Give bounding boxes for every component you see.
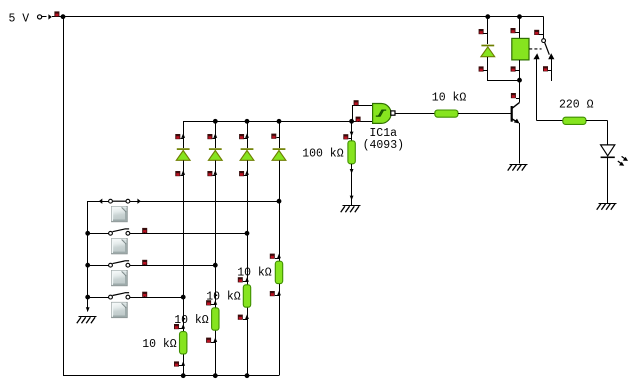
value label R2 10 k&#937; [174,314,209,327]
junction dot [181,295,186,300]
switch S2 (open) [109,229,130,235]
wire gate input A jog [352,106,354,122]
wire [183,354,185,376]
wire [42,16,46,18]
wire 5V rail left [63,17,65,376]
pin marker [175,171,183,176]
value label R4 10 k&#937; [237,267,272,280]
junction dot bottom rail [245,373,250,378]
pin marker [54,11,59,16]
pin marker [238,277,247,282]
wire [607,158,609,203]
wire [279,121,281,148]
wire [487,57,489,81]
ground [508,165,528,171]
wire diode bus [183,121,373,123]
wire [488,80,520,82]
pin marker [356,117,361,122]
LED arrows [618,156,628,165]
resistor R2 [212,308,219,330]
pin marker [206,300,215,305]
value label R1 10 k&#937; [142,338,177,351]
pin marker [142,260,147,265]
wire [351,121,353,141]
junction dot [213,263,218,268]
pin arrow [99,199,102,204]
pin marker [354,100,359,106]
wire 5V rail bottom [63,375,279,377]
junction dot [485,14,490,19]
wire [351,164,353,205]
wire [215,160,217,307]
pin arrow [213,300,217,305]
relay actuator dashed link [529,48,541,50]
pin marker [175,134,183,139]
diode D5 flyback [481,46,495,57]
value label R6 10 k&#937; [432,92,467,105]
pin marker [207,171,215,176]
wire [88,265,109,267]
wire [279,160,281,261]
pin arrow [137,199,140,204]
LED D6 [601,145,615,157]
pin arrow [350,169,354,174]
pin arrow [350,132,354,137]
wire collector [519,80,521,102]
op-amp U1 IC1a gate body [373,104,391,124]
wire [520,16,544,18]
ground [77,317,97,324]
pin marker [534,30,543,35]
pin marker [239,134,247,139]
svg-text:100 kΩ: 100 kΩ [302,148,344,161]
value label R5 100 k&#937; [302,148,344,161]
junction dot top bus [213,119,218,124]
wire [586,120,608,122]
pin arrow [48,14,51,19]
value label R3 10 k&#937; [206,290,241,303]
wire [487,17,489,44]
pin marker [270,254,279,259]
pin marker [543,66,552,71]
pin arrow [277,254,281,259]
switch S3 (open) [109,261,130,267]
gate output bubble [391,111,395,115]
wire [88,233,109,235]
junction dot [349,119,354,124]
wire [536,120,562,122]
pin arrow [213,170,217,175]
wire [215,121,217,148]
wire [247,160,249,284]
wire [543,17,545,39]
ref label IC1a [369,127,397,140]
pin marker [174,324,183,329]
wire 5V rail top [63,16,544,18]
junction dot [85,263,90,268]
transistor Q1 [512,103,520,124]
svg-text:10 kΩ: 10 kΩ [432,92,467,105]
junction dot [245,231,250,236]
ground [341,206,361,213]
svg-text:10 kΩ: 10 kΩ [206,290,241,303]
junction dot top bus [245,119,250,124]
wire contact NC stub [551,59,553,81]
pin arrow [350,196,354,201]
contact NO arrow [533,53,539,59]
switch S4 (open) [109,293,130,299]
pushbutton cap S2 [112,239,128,254]
svg-text:(4093): (4093) [363,139,404,152]
pin arrow [245,170,249,175]
wire [519,17,521,39]
pin arrow [213,133,217,138]
wire [458,113,511,115]
wire [607,121,609,145]
pin marker [270,291,279,296]
pin arrow [181,324,185,329]
wire gate input A [352,105,373,107]
resistor R7 [563,117,586,124]
resistor R4 [275,261,282,283]
pin marker [142,228,147,233]
wire [130,233,247,235]
value label R7 220 &#937; [559,99,594,112]
wire [130,297,183,299]
junction dot [61,14,66,19]
pin marker [142,292,147,297]
pin arrow [213,337,217,342]
switch S1 (closed) [109,199,130,203]
pin marker [239,171,247,176]
pin marker [206,338,215,343]
svg-text:10 kΩ: 10 kΩ [237,267,272,280]
wire [130,201,279,203]
pin arrow [245,314,249,319]
diode D3 [240,149,254,160]
pin marker [511,66,520,71]
pin arrow [181,133,185,138]
wire switch bus [87,201,89,312]
pin arrow [181,170,185,175]
pin marker [238,315,247,320]
junction dot [85,295,90,300]
junction dot [85,231,90,236]
relay K1 coil [512,38,529,60]
resistor R5 [348,141,355,164]
pin arrow [277,291,281,296]
junction dot [517,14,522,19]
junction dot bottom rail [181,373,186,378]
wire [247,121,249,148]
pin arrow [245,133,249,138]
wire [52,16,63,18]
svg-text:5 V: 5 V [9,13,30,26]
wire [215,330,217,376]
relay contact lever [545,42,550,54]
wire [130,265,215,267]
wire contact NO [536,59,538,121]
relay contact common [542,39,546,43]
ref label (4093) [363,139,404,152]
pin marker [479,29,488,34]
pin arrow [86,307,90,312]
pin marker collector [511,93,520,99]
pin arrow [245,277,249,282]
svg-text:220 Ω: 220 Ω [559,99,594,112]
diode D1 [176,149,190,160]
wire [88,201,109,203]
pin marker [343,134,351,139]
net label 5V [9,13,30,26]
svg-text:10 kΩ: 10 kΩ [142,338,177,351]
wire [519,60,521,80]
wire [88,297,109,299]
svg-text:10 kΩ: 10 kΩ [174,314,209,327]
pushbutton cap S3 [112,271,128,286]
junction dot top bus [277,119,282,124]
junction dot bottom rail [213,373,218,378]
wire [395,113,435,115]
wire [183,160,185,331]
schmitt symbol [376,110,386,116]
resistor R3 [243,285,250,307]
contact NC arrow [548,53,554,59]
wire [247,307,249,376]
pushbutton cap S4 [112,302,128,317]
terminal 5V [38,15,42,19]
pin arrow [181,361,185,366]
pin marker [271,134,279,139]
resistor R6 [435,110,458,117]
wire emitter [519,123,521,164]
pin marker [207,134,215,139]
junction dot [277,199,282,204]
pin marker [479,66,488,71]
wire [183,121,185,148]
wire [279,284,281,376]
pin marker [174,361,183,366]
pushbutton cap S1 [112,207,128,222]
diode D4 [272,149,286,160]
ground [597,204,617,210]
resistor R1 [180,332,187,354]
diode D2 [208,149,222,160]
pin marker [511,28,520,33]
junction dot [517,78,522,83]
